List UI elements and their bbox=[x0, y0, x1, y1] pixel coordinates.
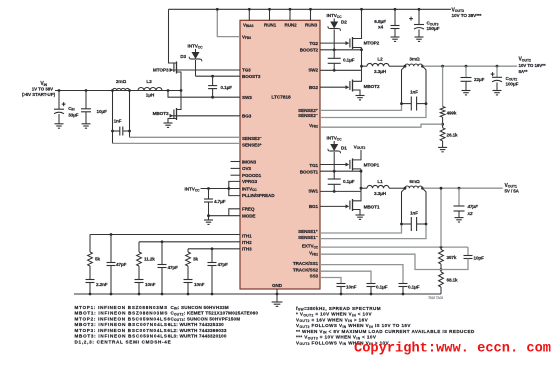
svg-text:0.1μF: 0.1μF bbox=[343, 58, 355, 63]
svg-text:10V TO 16V**: 10V TO 16V** bbox=[519, 63, 546, 68]
svg-text:MTOP3: INFINEON BSC007N04LS6: MTOP3: INFINEON BSC007N04LS6 bbox=[75, 328, 171, 333]
svg-text:L2: WURTH 7443369033: L2: WURTH 7443369033 bbox=[171, 328, 227, 333]
svg-text:LTC7818: LTC7818 bbox=[271, 94, 291, 100]
svg-text:MTOP3: MTOP3 bbox=[153, 68, 169, 73]
svg-text:1μH: 1μH bbox=[146, 93, 155, 98]
svg-text:BG1: BG1 bbox=[309, 204, 319, 209]
svg-text:L1: L1 bbox=[377, 179, 383, 184]
svg-text:MTOP2: INFINEON BSC059N04LS6: MTOP2: INFINEON BSC059N04LS6 bbox=[75, 316, 171, 321]
svg-text:D2: D2 bbox=[341, 20, 347, 25]
svg-text:GND: GND bbox=[272, 283, 283, 288]
svg-text:INTVCC​: INTVCC​ bbox=[327, 136, 343, 142]
svg-text:MBOT3: INFINEON BSC059N04LS6: MBOT3: INFINEON BSC059N04LS6 bbox=[75, 334, 171, 339]
svg-text:1nF: 1nF bbox=[114, 119, 122, 124]
svg-text:1nF: 1nF bbox=[410, 90, 418, 95]
svg-text:47pF: 47pF bbox=[218, 262, 229, 267]
svg-text:TRACK/SS1: TRACK/SS1 bbox=[293, 261, 319, 266]
svg-text:RUN3: RUN3 bbox=[305, 23, 318, 28]
svg-text:3.3μH: 3.3μH bbox=[374, 69, 387, 74]
svg-text:VFB3​: VFB3​ bbox=[242, 35, 251, 41]
svg-text:EXTVCC​: EXTVCC​ bbox=[302, 244, 319, 250]
svg-text:47pF: 47pF bbox=[168, 265, 179, 270]
svg-text:MBOT1: INFINEON BSZ088N03MS: MBOT1: INFINEON BSZ088N03MS bbox=[75, 311, 169, 316]
svg-text:SW2: SW2 bbox=[308, 67, 318, 72]
svg-text:Copyright:www. eccn. com: Copyright:www. eccn. com bbox=[354, 342, 551, 357]
svg-text:MTOP2: MTOP2 bbox=[364, 41, 380, 46]
svg-text:VOUT2​: VOUT2​ bbox=[519, 57, 532, 63]
svg-text:68.1k: 68.1k bbox=[447, 278, 459, 283]
svg-text:10nF: 10nF bbox=[346, 285, 357, 290]
svg-text:6mΩ: 6mΩ bbox=[409, 179, 420, 184]
svg-text:3mΩ: 3mΩ bbox=[409, 57, 420, 62]
svg-text:0.1μF: 0.1μF bbox=[221, 85, 233, 90]
svg-text:OV3: OV3 bbox=[242, 166, 251, 171]
svg-text:MBOT2: MBOT2 bbox=[364, 84, 380, 89]
svg-text:SENSE3⁻: SENSE3⁻ bbox=[242, 136, 263, 141]
svg-text:2mΩ: 2mΩ bbox=[116, 79, 127, 84]
svg-text:7818 TA06: 7818 TA06 bbox=[428, 296, 443, 300]
svg-text:L2: L2 bbox=[377, 57, 383, 62]
svg-text:D1: D1 bbox=[341, 146, 347, 151]
svg-text:+: + bbox=[409, 16, 413, 23]
svg-text:BOOST2: BOOST2 bbox=[300, 48, 319, 53]
svg-text:INTVCC​: INTVCC​ bbox=[327, 13, 343, 19]
svg-text:INTVCC​: INTVCC​ bbox=[185, 187, 201, 193]
svg-text:BOOST3: BOOST3 bbox=[242, 74, 261, 79]
svg-text:10nF: 10nF bbox=[145, 282, 156, 287]
svg-text:357k: 357k bbox=[447, 255, 457, 260]
svg-text:(>5V START-UP): (>5V START-UP) bbox=[22, 92, 56, 97]
svg-text:VBIAS​: VBIAS​ bbox=[243, 23, 254, 29]
svg-text:IMON3: IMON3 bbox=[242, 159, 257, 164]
svg-text:MTOP1: INFINEON BSZ088N03MS: MTOP1: INFINEON BSZ088N03MS bbox=[75, 305, 168, 310]
svg-text:+: + bbox=[62, 102, 66, 109]
svg-text:FREQ: FREQ bbox=[242, 207, 255, 212]
svg-text:SENSE2⁻: SENSE2⁻ bbox=[298, 113, 319, 118]
svg-text:BG2: BG2 bbox=[309, 85, 319, 90]
svg-text:SENSE2⁺: SENSE2⁺ bbox=[298, 108, 319, 113]
svg-text:8A**: 8A** bbox=[519, 69, 528, 74]
svg-text:x2: x2 bbox=[467, 211, 473, 216]
svg-text:ITH1: ITH1 bbox=[242, 233, 252, 238]
svg-text:VFB2​: VFB2​ bbox=[309, 123, 318, 129]
svg-text:MBOT3: MBOT3 bbox=[153, 111, 169, 116]
svg-text:2.2nF: 2.2nF bbox=[96, 282, 108, 287]
svg-text:10μF: 10μF bbox=[97, 109, 108, 114]
svg-text:VPRG3: VPRG3 bbox=[242, 179, 258, 184]
svg-text:0.1μF: 0.1μF bbox=[376, 285, 388, 290]
svg-text:TRACK/SS2: TRACK/SS2 bbox=[293, 267, 319, 272]
svg-text:L3: L3 bbox=[146, 79, 152, 84]
svg-text:CIN​: CIN​ bbox=[68, 106, 75, 112]
svg-text:SENSE1⁻: SENSE1⁻ bbox=[298, 235, 319, 240]
svg-text:BG3: BG3 bbox=[242, 114, 252, 119]
svg-text:150μF: 150μF bbox=[427, 26, 440, 31]
svg-text:D3: D3 bbox=[180, 54, 186, 59]
svg-text:22μF: 22μF bbox=[474, 77, 485, 82]
svg-text:0.1μF: 0.1μF bbox=[408, 285, 420, 290]
svg-text:RUN1: RUN1 bbox=[264, 23, 277, 28]
svg-text:10V TO 38V***: 10V TO 38V*** bbox=[452, 13, 482, 18]
svg-text:ITH2: ITH2 bbox=[242, 240, 252, 245]
svg-text:1nF: 1nF bbox=[410, 210, 418, 215]
svg-text:MBOT2: INFINEON BSC007N04LS6: MBOT2: INFINEON BSC007N04LS6 bbox=[75, 322, 171, 327]
svg-text:TG2: TG2 bbox=[309, 41, 318, 46]
svg-text:100μF: 100μF bbox=[506, 81, 519, 86]
svg-text:INTVCC​: INTVCC​ bbox=[242, 186, 257, 192]
svg-text:BOOST1: BOOST1 bbox=[300, 169, 319, 174]
svg-text:TG1: TG1 bbox=[309, 163, 318, 168]
svg-text:PLLIN/SPREAD: PLLIN/SPREAD bbox=[242, 193, 275, 198]
svg-text:VFB1​: VFB1​ bbox=[309, 251, 318, 257]
svg-text:PGOOD1: PGOOD1 bbox=[242, 173, 262, 178]
svg-text:11.2k: 11.2k bbox=[144, 257, 155, 262]
svg-text:33μF: 33μF bbox=[68, 112, 79, 117]
svg-text:47μF: 47μF bbox=[467, 204, 479, 209]
svg-text:0.1μF: 0.1μF bbox=[343, 179, 355, 184]
svg-text:x4: x4 bbox=[378, 25, 384, 30]
svg-text:1V TO 38V: 1V TO 38V bbox=[32, 87, 53, 92]
svg-text:L1: WURTH 744325330: L1: WURTH 744325330 bbox=[171, 322, 225, 327]
svg-text:VOUT2​: VOUT2​ bbox=[354, 144, 366, 150]
svg-text:MTOP1: MTOP1 bbox=[364, 162, 380, 167]
svg-text:3.3μH: 3.3μH bbox=[374, 191, 387, 196]
svg-text:SS3: SS3 bbox=[310, 274, 319, 279]
svg-text:47pF: 47pF bbox=[116, 262, 127, 267]
svg-text:INTVCC​: INTVCC​ bbox=[188, 44, 204, 50]
svg-text:SW3: SW3 bbox=[242, 95, 252, 100]
svg-text:SENSE1⁺: SENSE1⁺ bbox=[298, 229, 319, 234]
svg-text:26.1k: 26.1k bbox=[447, 132, 459, 137]
svg-text:MODE: MODE bbox=[242, 213, 255, 218]
svg-text:SW1: SW1 bbox=[308, 189, 318, 194]
svg-text:D1,2,3: CENTRAL SEMI CMDSH-4E: D1,2,3: CENTRAL SEMI CMDSH-4E bbox=[75, 339, 172, 344]
svg-text:5k: 5k bbox=[95, 257, 100, 262]
svg-text:10nF: 10nF bbox=[194, 282, 205, 287]
svg-text:+: + bbox=[491, 71, 495, 78]
svg-text:L3: WURTH 7443320100: L3: WURTH 7443320100 bbox=[171, 334, 227, 339]
svg-text:10pF: 10pF bbox=[474, 256, 485, 261]
svg-text:SENSE3⁺: SENSE3⁺ bbox=[242, 142, 263, 147]
svg-text:RUN2: RUN2 bbox=[285, 23, 298, 28]
svg-text:TG3: TG3 bbox=[242, 68, 251, 73]
svg-text:5V / 5A: 5V / 5A bbox=[505, 189, 520, 194]
svg-text:499k: 499k bbox=[447, 110, 457, 115]
svg-text:MBOT1: MBOT1 bbox=[364, 205, 380, 210]
svg-text:4.7μF: 4.7μF bbox=[214, 199, 226, 204]
svg-text:3k: 3k bbox=[193, 257, 198, 262]
svg-text:ITH3: ITH3 bbox=[242, 247, 252, 252]
svg-text:6.8μF: 6.8μF bbox=[374, 19, 386, 24]
